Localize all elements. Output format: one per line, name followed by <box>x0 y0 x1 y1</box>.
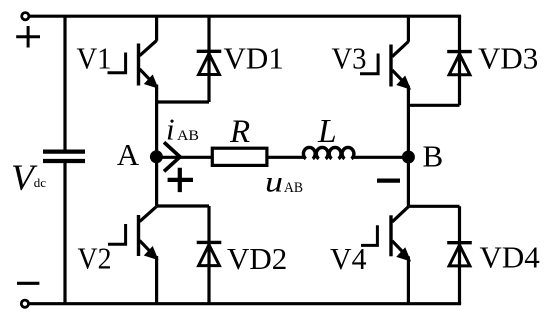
wire VD1 anode jog <box>157 100 209 103</box>
wire V1 emitter to node A <box>155 85 158 158</box>
wire V4 collector jog <box>408 205 459 208</box>
wire VD3 anode jog <box>408 104 459 107</box>
svg-text:AB: AB <box>177 128 199 144</box>
plus label (uAB polarity) <box>168 168 193 192</box>
wire V4 emitter to bottom rail <box>407 256 410 303</box>
wire V2 collector jog <box>157 204 209 207</box>
wire node B to V4 collector <box>407 157 410 206</box>
svg-text:u: u <box>265 166 283 199</box>
label Vdc <box>11 158 46 199</box>
minus label (dc -) <box>17 282 39 285</box>
wire V3 collector <box>407 16 410 42</box>
diode VD1 <box>197 16 222 102</box>
diode VD4 <box>447 206 472 303</box>
capacitor C (top plate) <box>43 150 85 154</box>
svg-text:AB: AB <box>284 180 303 196</box>
svg-text:R: R <box>229 114 250 150</box>
svg-text:VD1: VD1 <box>224 41 284 76</box>
capacitor C (bottom plate) <box>43 159 85 163</box>
transistor V4 (IGBT) <box>361 207 410 260</box>
wire V2 emitter to bottom rail <box>155 256 158 304</box>
wire top rail <box>29 15 461 18</box>
wire V3 emitter to node B <box>407 86 410 158</box>
current arrow iAB <box>164 142 180 171</box>
transistor V3 (IGBT) <box>360 42 410 89</box>
svg-text:A: A <box>117 137 140 172</box>
node A <box>150 150 163 163</box>
plus label (dc +) <box>16 26 40 48</box>
svg-text:B: B <box>423 138 444 173</box>
resistor R <box>212 148 267 165</box>
wire bottom rail <box>29 302 462 305</box>
wire inductor to node B <box>352 156 408 159</box>
wire node A to resistor <box>162 156 212 159</box>
svg-text:V3: V3 <box>332 41 367 76</box>
transistor V1 (IGBT) <box>108 41 158 88</box>
minus label (uAB polarity) <box>377 178 400 182</box>
svg-text:V2: V2 <box>78 241 112 276</box>
svg-text:V1: V1 <box>77 41 112 76</box>
transistor V2 (IGBT) <box>108 206 157 258</box>
terminal + (top-left) <box>22 13 29 20</box>
wire node A to V2 collector <box>155 157 158 206</box>
diode VD3 <box>447 16 472 105</box>
svg-text:L: L <box>317 113 337 150</box>
diode VD2 <box>197 206 222 304</box>
svg-text:dc: dc <box>34 175 47 190</box>
svg-text:V4: V4 <box>330 241 367 276</box>
svg-text:VD4: VD4 <box>480 240 541 275</box>
node B <box>402 151 415 164</box>
inductor L <box>303 147 354 158</box>
label uAB <box>265 166 303 199</box>
svg-text:i: i <box>166 112 175 147</box>
svg-text:VD2: VD2 <box>227 241 287 276</box>
terminal - (bottom-left) <box>21 300 28 307</box>
wire dc link bottom <box>63 163 66 304</box>
wire V1 collector <box>155 16 158 41</box>
svg-text:VD3: VD3 <box>478 41 538 76</box>
wire resistor to inductor <box>267 156 306 159</box>
wire dc link top <box>63 16 66 150</box>
label iAB <box>166 112 199 147</box>
